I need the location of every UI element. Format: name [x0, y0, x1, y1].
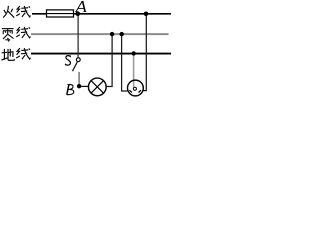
wire lamp to neutral (via junction) [106, 34, 112, 86]
node A junction dot [76, 12, 81, 17]
label A (italic) [75, 1, 86, 12]
wire live horizontal [32, 13, 171, 15]
wire ground horizontal [31, 53, 171, 55]
lamp X cross [91, 81, 104, 94]
wire neutral to socket left [122, 34, 129, 91]
socket (three-hole) circle [127, 80, 143, 96]
wire ground to socket centre (grey) [133, 54, 135, 87]
junction dot live-socket [144, 12, 149, 17]
junction dot neutral-lamp [110, 32, 114, 36]
switch S blade (open) [73, 62, 78, 71]
label B (italic) [67, 84, 74, 94]
wire live to socket right [143, 14, 147, 91]
wire switch to B [78, 72, 80, 85]
socket earth hole (small circle) [133, 87, 136, 90]
socket left slot [129, 90, 132, 92]
label 零线 (neutral wire) [2, 27, 31, 42]
wire neutral horizontal [31, 33, 169, 35]
node B junction dot [77, 84, 81, 88]
label S [65, 55, 70, 65]
fuse element wire [47, 13, 74, 15]
label 地线 (earth wire) [2, 48, 31, 60]
fuse (rectangle on live wire) [47, 10, 74, 17]
socket right slot [139, 90, 142, 92]
junction dot ground-socket [132, 51, 136, 55]
label 火线 (live wire) [3, 6, 30, 18]
wire B to lamp [81, 85, 89, 87]
wire A to switch [77, 14, 79, 58]
switch S terminal circle [76, 58, 80, 62]
lamp L circle [88, 78, 106, 96]
junction dot neutral-socket [120, 32, 124, 36]
